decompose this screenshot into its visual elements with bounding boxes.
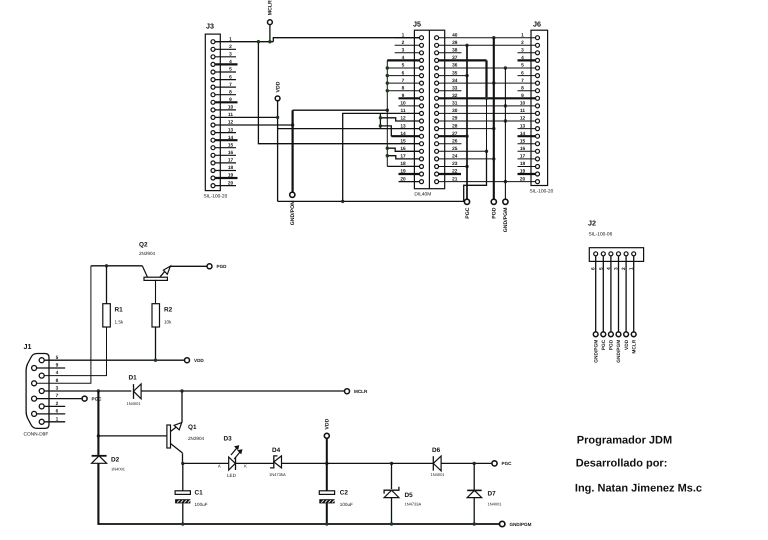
svg-text:17: 17 [228, 158, 234, 164]
svg-text:GND/PGM: GND/PGM [616, 340, 622, 363]
svg-text:C2: C2 [340, 490, 349, 497]
J6 pin 6 stub [518, 75, 536, 77]
junction R2 / VDD [154, 359, 157, 362]
terminal MCLR (Q1 stage) [345, 389, 368, 394]
J6 pin 16 stub [518, 150, 536, 152]
terminal VDD (C2) [324, 418, 330, 438]
diode D1 1N4001 [127, 375, 142, 406]
svg-text:PGC: PGC [465, 207, 471, 218]
wire D6 to PGC terminal [441, 462, 492, 464]
junction PGD / J5.24 [492, 157, 495, 160]
LED D3 [218, 436, 247, 479]
wire C2 bottom (bold) [326, 503, 328, 524]
svg-text:2N3904: 2N3904 [188, 436, 205, 441]
wire VDD bottom run to PGC terminal [278, 200, 465, 202]
J5 pin 2 stub [395, 44, 420, 46]
diode D2 1N4001 [92, 456, 126, 472]
svg-text:8: 8 [229, 89, 232, 95]
wire Q1 base [98, 435, 166, 437]
junction Q1 emitter / C1 [181, 462, 184, 465]
wire J5.40 to J6.1 (PGD net) [439, 37, 536, 39]
svg-text:J5: J5 [413, 20, 421, 29]
svg-text:1N4733A: 1N4733A [405, 502, 422, 507]
wire J2 pin 2 [625, 256, 627, 332]
svg-text:1.5k: 1.5k [115, 320, 124, 325]
wire J1 pin 7 to PGC terminal [36, 398, 82, 400]
connector J2 (SIL-100-06) [588, 219, 644, 363]
svg-text:13: 13 [228, 127, 234, 133]
svg-text:3: 3 [229, 52, 232, 58]
svg-text:18: 18 [228, 165, 234, 171]
svg-text:D7: D7 [488, 490, 497, 497]
wire J1 pin 5 to VDD terminal [44, 359, 185, 361]
transistor Q1 2N3904 [167, 423, 205, 453]
junction MCLR net [257, 40, 260, 43]
svg-text:J3: J3 [206, 22, 214, 31]
wire J5.21 to J6.20 (GND/PGM) [439, 181, 536, 183]
svg-text:LED: LED [227, 473, 237, 478]
junction GND/PGM / J5.31 [504, 104, 507, 107]
svg-text:Q1: Q1 [188, 424, 197, 431]
wire GND/POM bold vertical [292, 110, 294, 192]
resistor R1 1.5k [103, 304, 124, 327]
J6 pin 14 stub (bold) [518, 135, 536, 137]
wire VDD node to D5 node [327, 462, 392, 464]
J6 pin 13 stub [518, 128, 536, 130]
terminal VDD (J2 pin 2) [624, 332, 630, 350]
junction PGD / J5.40 [492, 36, 495, 39]
terminal MCLR (top) [268, 0, 274, 25]
capacitor C1 100uF [175, 490, 208, 507]
svg-text:R2: R2 [164, 307, 173, 314]
svg-text:4: 4 [229, 59, 232, 65]
J6 pin 17 stub [518, 158, 536, 160]
connector J6 (SIL-100-20) [520, 20, 554, 195]
svg-text:Ing. Natan Jimenez Ms.c: Ing. Natan Jimenez Ms.c [575, 482, 702, 494]
wire to D7 [473, 463, 475, 490]
svg-text:Desarrollado por:: Desarrollado por: [576, 457, 668, 469]
wire J5.36 to J6.5 (GND/PGM net) [439, 67, 536, 69]
wire Q2 emitter to PGD terminal [170, 265, 207, 267]
svg-text:SIL-100-06: SIL-100-06 [589, 232, 613, 238]
junction D7 branch [473, 462, 476, 465]
svg-text:R1: R1 [115, 307, 124, 314]
svg-text:9: 9 [229, 97, 232, 103]
junction bus/pin16 [386, 147, 389, 150]
junction GND/PGM / row5 [504, 66, 507, 69]
terminal PGC (at J1 pin 7) [82, 396, 102, 401]
J1 pin 6 stub [36, 413, 65, 415]
svg-text:1N4001: 1N4001 [127, 401, 142, 406]
wire MCLR node to J5 pin 1 [273, 38, 419, 42]
diode D7 1N4001 [467, 463, 502, 506]
svg-text:PGD: PGD [492, 207, 498, 218]
wire PGC branch bold (to D2) [97, 391, 99, 455]
wire J3 pin 11 to VDD [215, 116, 277, 118]
wire bus to J5 pin 7 [387, 82, 419, 84]
svg-text:1N4001: 1N4001 [111, 466, 126, 471]
wire bus to J5 pin 16 [387, 148, 419, 151]
wire J2 pin 3 [618, 256, 620, 332]
wire Q1 emitter row to D3 [183, 462, 229, 464]
J6 pin 18 stub [518, 166, 536, 168]
junction PGC / J5.23 [465, 165, 468, 168]
J5 pin 1 stub [395, 37, 420, 39]
svg-text:16: 16 [228, 150, 234, 156]
wire J3 pin1 to MCLR node [215, 41, 273, 43]
terminal GND/PGM (J2 pin 6) [593, 332, 599, 363]
wire MCLR terminal drop [269, 25, 271, 42]
terminal MCLR (J2 pin 1) [631, 332, 637, 354]
connector J1 (CONN-D9F) [24, 342, 59, 438]
svg-text:PGC: PGC [92, 396, 103, 401]
wire J5.27 to PGC (bold) [439, 135, 467, 137]
connector J5 (DIL40M) [400, 20, 457, 198]
wire D5 node to D6 [392, 462, 434, 464]
svg-text:10: 10 [228, 105, 234, 111]
wire J5.23 to PGC [439, 166, 467, 168]
svg-text:7: 7 [229, 82, 232, 88]
wire bus to J5 pin 17 [387, 156, 419, 159]
wire D3 to D4 [236, 462, 274, 464]
resistor R2 10k [152, 304, 173, 327]
junction D5 branch [390, 462, 393, 465]
wire D1 to MCLR terminal [141, 390, 344, 392]
wire VDD vertical [277, 101, 279, 202]
terminal PGD (Q2) [207, 264, 227, 269]
wire J5.29 to J6.12 (GND/PGM) [439, 120, 536, 122]
wire VDD spur vertical [379, 113, 381, 128]
wire C1 top [182, 463, 184, 490]
zener D4 1N4735A [269, 447, 286, 477]
svg-text:1N4735A: 1N4735A [269, 472, 286, 477]
wire J5.25 [439, 150, 487, 152]
wire J2 pin 6 [595, 256, 597, 332]
svg-text:PGD: PGD [609, 339, 615, 350]
wire D2 to ground rail (bold) [97, 463, 99, 525]
wire J5.34 to J6.7 (PGD net) [439, 82, 536, 84]
junction Q1 collector [180, 389, 183, 392]
svg-text:C1: C1 [195, 490, 204, 497]
wire bus to J5 pin 18 [387, 165, 419, 167]
svg-text:100uF: 100uF [340, 502, 353, 507]
junction PGC / J5.35 [465, 74, 468, 77]
svg-text:PGD: PGD [217, 264, 228, 269]
svg-text:Programador JDM: Programador JDM [577, 435, 672, 447]
svg-text:D3: D3 [224, 436, 233, 443]
wire C1 bottom [182, 503, 184, 524]
J5 pin 10 stub [399, 105, 420, 107]
wire J5.24 to PGD [439, 158, 494, 160]
J1 pin 1 stub [44, 421, 65, 423]
junction bold net [485, 97, 488, 100]
wire J1 pin 3 to D1 [44, 390, 132, 392]
junction spur/pin14 [379, 124, 382, 127]
wire bus to J5 pin 6 [387, 75, 419, 77]
terminal GND/PGM (rail) [500, 521, 532, 527]
terminal PGC (below J5) [464, 199, 470, 219]
J6 pin 8 stub [518, 90, 536, 92]
junction PGC/D2 branch [97, 389, 100, 392]
junction rail / C2 [325, 522, 328, 525]
svg-text:D4: D4 [272, 447, 281, 454]
J1 pin 2 stub [44, 405, 65, 407]
terminal PGC (J2 pin 5) [601, 332, 607, 350]
wire bus to J5 pin 8 [387, 90, 419, 92]
J5 pin 20 stub [399, 181, 420, 183]
J6 pin 4 stub (bold) [518, 59, 536, 61]
wire J2 pin 1 [633, 256, 635, 332]
J5 pin 33 stub [439, 90, 462, 92]
svg-text:GND/PGM: GND/PGM [510, 522, 532, 527]
wire Q1 collector [181, 391, 183, 422]
junction VDD / C2 [325, 462, 328, 465]
svg-text:2: 2 [229, 44, 232, 50]
wire J5.39 to J6.2 (PGC net) [439, 44, 536, 46]
wire J5.28 to PGD [439, 128, 494, 130]
svg-text:19: 19 [228, 173, 234, 179]
wire PGD vertical (bold) [493, 38, 495, 200]
wire J3 pin 12 to GND/POM [215, 124, 292, 126]
junction PGC / J5.27 [465, 135, 468, 138]
wire J5.25 jog to PGC terminal [464, 151, 487, 201]
terminal GND/POM (below J3 area) [290, 192, 296, 225]
junction PGD / J5.28 [492, 127, 495, 130]
svg-text:VDD: VDD [624, 339, 630, 350]
junction GND/POM / J3.12 [291, 123, 294, 126]
svg-text:SIL-100-20: SIL-100-20 [530, 189, 554, 195]
junction PGD / J5.34 [492, 81, 495, 84]
wire spur to J5 pin 12 [380, 118, 419, 121]
wire GND/POM to J5 left bus [293, 109, 388, 111]
wire to D5 [391, 463, 393, 489]
wire Q2 base [91, 265, 142, 267]
svg-text:1N4001: 1N4001 [431, 472, 446, 477]
svg-text:100uF: 100uF [195, 502, 208, 507]
svg-text:Q2: Q2 [139, 242, 148, 249]
svg-text:GND/PGM: GND/PGM [593, 340, 599, 363]
wire bold vertical 37-32 [485, 60, 487, 98]
svg-text:D2: D2 [111, 457, 120, 464]
junction rail / C1 [181, 522, 184, 525]
wire J1 pin 4 to R1 [44, 327, 107, 376]
svg-text:J2: J2 [588, 219, 596, 228]
J6 pin 15 stub [518, 143, 536, 145]
terminal GND/PGM (J2 pin 3) [616, 332, 622, 363]
J5 pin 26 stub [439, 143, 462, 145]
svg-text:15: 15 [228, 142, 234, 148]
wire R2 bottom to VDD line [155, 327, 157, 360]
svg-text:10k: 10k [164, 320, 172, 325]
junction GND/PGM / J5.21 [504, 180, 507, 183]
wire Q1 emitter [182, 453, 184, 463]
wire J1 pin 8 up to Q2 base [36, 266, 91, 384]
wire J5.30 to J6.11 [439, 112, 536, 114]
wire vertical row9 to row16 [486, 98, 488, 151]
junction spur/pin12 [379, 116, 382, 119]
svg-text:VDD: VDD [275, 81, 281, 92]
wire bus to J5 pin 4 (bold) [387, 59, 419, 61]
connector J3 (SIL-100-20) [204, 22, 238, 200]
wire up to J5 pin 11 [343, 113, 420, 201]
svg-text:D1: D1 [129, 375, 138, 382]
wire J5.37 bold [439, 59, 487, 61]
svg-text:MCLR: MCLR [631, 339, 637, 353]
svg-text:VDD: VDD [194, 358, 204, 363]
svg-text:MCLR: MCLR [354, 389, 368, 394]
terminal VDD (J1 area) [185, 358, 205, 363]
transistor Q2 2N3904 [139, 242, 170, 304]
terminal PGD (J2 pin 4) [609, 332, 615, 350]
wire D4 to VDD node [282, 462, 327, 464]
junction Q1 base [97, 434, 100, 437]
svg-text:6: 6 [229, 74, 232, 80]
svg-text:J6: J6 [533, 20, 541, 29]
terminal GND/PGM (below J5) [503, 199, 509, 232]
junction PGC / J5.39 [465, 44, 468, 47]
wire J5.32 to J6.9 (bold) [439, 97, 536, 99]
svg-text:CONN-D9F: CONN-D9F [24, 432, 49, 438]
svg-text:MCLR: MCLR [268, 0, 274, 15]
junction rail / D7 [473, 522, 476, 525]
terminal VDD (upper) [275, 81, 281, 101]
wire GND/PGM vertical [504, 68, 506, 199]
J6 pin 19 stub (bold) [518, 173, 536, 175]
wire J5 left ground bus vertical [386, 60, 388, 166]
svg-text:5: 5 [229, 67, 232, 73]
wire spur to J5 pin 14 [380, 126, 391, 136]
svg-text:SIL-100-20: SIL-100-20 [204, 194, 228, 200]
zener D5 1N4733A [384, 463, 421, 506]
J5 pin 19 stub (bold) [399, 173, 420, 175]
svg-text:PGC: PGC [601, 339, 607, 350]
junction Q2 base / R1 [105, 264, 108, 267]
terminal PGC (output) [492, 461, 512, 466]
wire bus to J5 pin 5 [387, 67, 419, 69]
J5 pin 38 stub [439, 52, 462, 54]
svg-text:GND/PGM: GND/PGM [503, 208, 509, 233]
wire J5.35 to PGC [439, 75, 467, 77]
wire ground rail GND/POM [98, 523, 499, 525]
wire VDD to J5 pin 13 [278, 128, 420, 130]
junction GND/PGM / J5.29 [504, 119, 507, 122]
wire J2 pin 5 [602, 256, 604, 332]
wire D7 to rail [473, 498, 475, 524]
J5 pin 22 stub (bold) [439, 173, 461, 175]
wire J5 pin 14 (bold) [391, 135, 419, 137]
svg-text:20: 20 [228, 180, 234, 186]
wire VDD terminal through C2 (bold) [326, 438, 328, 490]
junction J5.25 net [485, 150, 488, 153]
diode D6 1N4001 [431, 447, 446, 477]
svg-text:2N3904: 2N3904 [139, 251, 156, 256]
svg-text:D5: D5 [405, 492, 414, 499]
svg-text:D6: D6 [432, 447, 441, 454]
J5 pin 3 stub [395, 52, 420, 54]
svg-text:14: 14 [228, 135, 234, 141]
wire D5 to rail [391, 498, 393, 524]
capacitor C2 100uF [319, 490, 353, 507]
svg-text:DIL40M: DIL40M [414, 192, 431, 198]
svg-text:1N4001: 1N4001 [488, 501, 503, 506]
junction bus/pin17 [386, 154, 389, 157]
wire J2 pin 4 [610, 256, 612, 332]
terminal PGD (below J5) [491, 199, 497, 219]
svg-text:GND/POM: GND/POM [290, 201, 296, 226]
wire J3.1 net down to J5 pin 15 [258, 42, 419, 144]
wire J5.31 to J6.10 (GND/PGM) [439, 105, 536, 107]
wire R1 top [106, 266, 108, 304]
junction VDD bottom run [341, 200, 344, 203]
wire PGC vertical [466, 45, 468, 199]
svg-text:J1: J1 [24, 342, 32, 351]
svg-text:VDD: VDD [325, 418, 331, 429]
J1 pin 9 stub [36, 367, 65, 369]
junction MCLR terminal [268, 40, 271, 43]
junction GND bus [386, 109, 389, 112]
svg-text:PGC: PGC [502, 461, 513, 466]
svg-text:A: A [218, 463, 221, 468]
J6 pin 3 stub [518, 52, 536, 54]
J5 pin 9 stub (bold) [399, 97, 420, 99]
junction VDD / J3.11 [276, 116, 279, 119]
junction rail / D5 [390, 522, 393, 525]
